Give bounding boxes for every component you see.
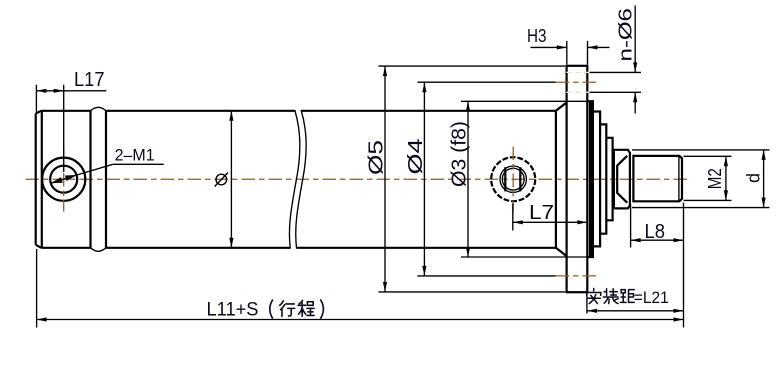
- dimension n-dia6: [590, 71, 642, 73]
- svg-text:Ø5: Ø5: [366, 140, 388, 175]
- diameter symbol: [216, 174, 227, 185]
- svg-text:L8: L8: [645, 221, 666, 243]
- label anzhuangju=L21: [586, 288, 634, 303]
- weld ring left line: [89, 111, 91, 248]
- svg-text:=L21: =L21: [634, 289, 669, 307]
- hanzi cheng: [298, 300, 314, 316]
- svg-text:L7: L7: [529, 202, 554, 224]
- dimension dia3 f8: [461, 100, 587, 102]
- leader 2-M1: [51, 164, 164, 183]
- cap chamfer top: [36, 111, 42, 114]
- port 1 inner circle: [50, 166, 77, 193]
- port 2 left chord: [504, 167, 506, 191]
- port 2 outer circle: [491, 157, 535, 201]
- dimension L11+S: [36, 249, 38, 328]
- cap chamfer bottom: [36, 245, 42, 248]
- port 2 inner circle: [502, 168, 524, 190]
- dimension H3: [566, 41, 568, 65]
- dimension L7: [512, 204, 514, 231]
- barrel end face: [555, 111, 557, 248]
- hanzi zhuang: [603, 289, 618, 304]
- svg-text:L17: L17: [74, 69, 105, 91]
- main centerline: [26, 178, 689, 180]
- port 2 vertical centerline: [512, 147, 514, 213]
- flange hole 2 centerline: [556, 275, 598, 277]
- flange hole hidden bottom: [566, 91, 588, 93]
- dimension L21: [586, 293, 588, 314]
- port 2 middle circle: [500, 166, 526, 192]
- svg-text:2–M1: 2–M1: [115, 145, 155, 164]
- barrel bottom edge: [41, 247, 90, 249]
- nut outline: [614, 150, 630, 209]
- dimension M2: [684, 155, 732, 157]
- rod chamfer line: [678, 156, 680, 201]
- hanzi xing: [280, 301, 295, 316]
- step C: [600, 124, 606, 233]
- port 1 outer circle: [42, 158, 85, 201]
- svg-text:d: d: [744, 173, 764, 183]
- flange hole hidden top: [566, 71, 588, 73]
- weld ring top arc: [91, 107, 107, 111]
- dimension d: [632, 149, 770, 151]
- break line left curve: [289, 110, 299, 249]
- dimension barrel diameter: [230, 111, 232, 248]
- dimension L8: [630, 205, 632, 248]
- hanzi ju: [620, 290, 634, 303]
- svg-text:H3: H3: [527, 26, 547, 46]
- svg-text:Ø4: Ø4: [405, 139, 427, 175]
- dimension L17: [35, 85, 37, 112]
- flange: [567, 66, 588, 292]
- rod: [633, 156, 682, 201]
- weld ring bottom arc: [91, 248, 107, 252]
- svg-text:M2: M2: [705, 168, 725, 189]
- break line right curve: [296, 110, 306, 249]
- cap face: [35, 114, 37, 245]
- barrel top edge: [41, 110, 90, 112]
- hanzi an: [586, 288, 601, 303]
- end chamfer top: [556, 103, 567, 111]
- cap inner line: [41, 111, 43, 248]
- weld ring right line: [105, 111, 107, 248]
- svg-text:Ø3 (f8): Ø3 (f8): [449, 121, 471, 187]
- port 2 right chord: [519, 167, 521, 191]
- flange hole 1 centerline: [556, 81, 599, 83]
- end chamfer bottom: [556, 248, 567, 256]
- svg-text:n-Ø6: n-Ø6: [615, 8, 636, 62]
- svg-text:L11+S: L11+S: [207, 300, 259, 321]
- dimension dia4: [417, 81, 555, 83]
- dimension dia5: [378, 65, 565, 67]
- nut hex profile: [617, 156, 627, 203]
- port 1 vertical centerline: [63, 146, 65, 212]
- step B: [593, 112, 600, 247]
- spigot step A: [587, 101, 593, 257]
- step D: [606, 138, 612, 221]
